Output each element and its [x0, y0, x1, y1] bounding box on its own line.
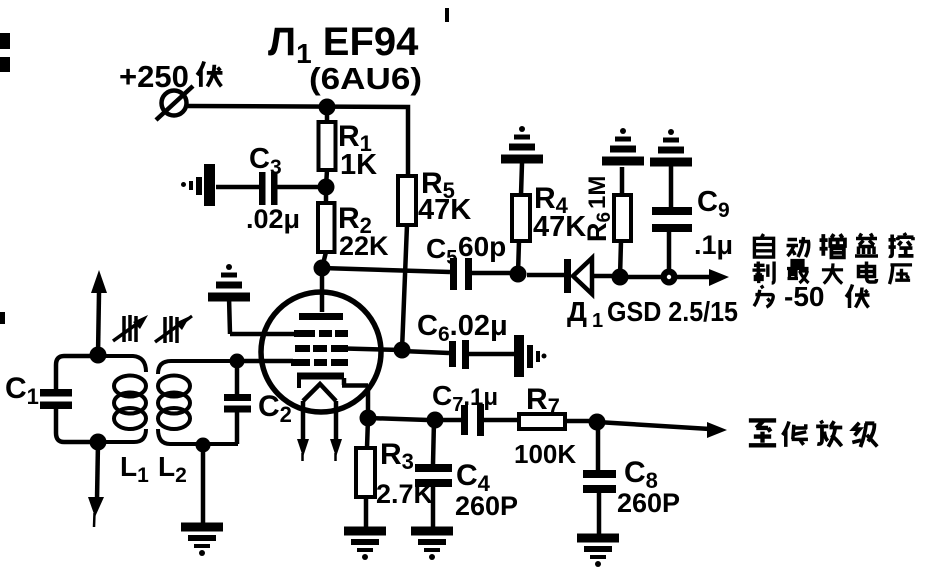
svg-text:C9: C9 — [697, 186, 730, 222]
capacitor C3 — [259, 172, 278, 205]
ground below C4 — [411, 531, 453, 560]
svg-text:R3: R3 — [380, 438, 414, 474]
node F (output ring junction) — [661, 269, 678, 286]
capacitor C8 — [583, 422, 616, 535]
svg-text:C1: C1 — [5, 372, 39, 409]
ground above R4 — [501, 126, 543, 159]
node H (grid junction) — [230, 354, 245, 369]
diode D1 — [564, 258, 592, 294]
svg-text:C7.1μ: C7.1μ — [432, 380, 498, 416]
svg-text:R7: R7 — [526, 383, 560, 419]
svg-text:GSD 2.5/15: GSD 2.5/15 — [607, 296, 738, 327]
grid g3 row — [294, 330, 348, 337]
label AGC text line1 自动增益控 — [754, 233, 913, 257]
capacitor C1 — [40, 389, 72, 409]
svg-text:1K: 1K — [340, 149, 377, 181]
svg-text:.1μ: .1μ — [694, 230, 733, 260]
wire node E to node F — [627, 275, 662, 280]
resistor R7 — [519, 414, 565, 429]
label AGC text line3 为-50伏 — [754, 281, 870, 312]
capacitor C9 — [652, 164, 692, 270]
terminal +250V — [156, 86, 193, 120]
wire AGC line to C5 — [322, 268, 450, 272]
node E (AGC junction) — [612, 269, 629, 286]
ground above R6 — [602, 128, 644, 161]
resistor R2 — [318, 187, 335, 268]
capacitor C5 — [450, 258, 472, 290]
node L2 bottom — [196, 438, 211, 453]
node D (detector junction) — [510, 266, 527, 283]
svg-text:47K: 47K — [418, 194, 471, 226]
anode plate — [299, 313, 343, 320]
wire L2 to ground — [201, 445, 206, 523]
node B (screen divider) — [318, 179, 335, 196]
cathode — [297, 376, 368, 418]
svg-text:1M: 1M — [584, 176, 611, 209]
core adjust mark L2 — [155, 316, 190, 343]
wire g3 to ground — [229, 297, 300, 334]
wire C6 to ground — [469, 352, 514, 357]
node M (output junction) — [589, 414, 606, 431]
svg-text:60p: 60p — [458, 231, 506, 262]
svg-text:C6.02μ: C6.02μ — [417, 310, 508, 346]
wire node D to diode — [527, 273, 564, 278]
wire C3 to node B — [277, 185, 326, 190]
label 伏 of +250伏 — [197, 62, 222, 87]
wire diode to node E — [592, 274, 613, 279]
node L (C4/C7) — [427, 412, 444, 429]
capacitor C6 — [449, 340, 469, 369]
ground below R3 — [344, 531, 386, 560]
wire top +250V rail — [188, 106, 408, 178]
wire C7 to R7 — [484, 418, 519, 423]
antenna up arrow — [91, 270, 107, 355]
wire output arrow — [597, 422, 727, 438]
svg-text:C2: C2 — [258, 390, 292, 427]
ground right of C6 — [514, 335, 547, 377]
label 至低放级 — [749, 420, 877, 447]
wire g2 to node G — [345, 349, 402, 351]
wire anode lead — [320, 268, 325, 312]
svg-text:-50: -50 — [784, 281, 824, 312]
node T1 tank top — [90, 347, 107, 364]
inductor L2 — [158, 361, 238, 444]
grid g1 row — [291, 359, 348, 366]
resistor R6 — [614, 167, 631, 277]
capacitor C4 — [415, 420, 452, 528]
core adjust mark L1 — [113, 315, 148, 342]
capacitor C2 — [224, 361, 251, 444]
svg-text:L2: L2 — [158, 451, 187, 487]
wire g1 row to node H — [237, 359, 293, 364]
tank down arrow — [88, 442, 104, 527]
svg-text:260P: 260P — [617, 488, 680, 518]
svg-text:C5: C5 — [426, 233, 457, 269]
svg-text:47K: 47K — [533, 211, 586, 243]
tube envelope U1 — [261, 292, 381, 412]
svg-text:1: 1 — [592, 310, 603, 332]
node C (anode junction) — [314, 260, 331, 277]
wire tank top left — [56, 356, 98, 389]
svg-text:R6: R6 — [582, 212, 615, 242]
resistor R1 — [319, 107, 336, 187]
node A (B+ junction) — [319, 99, 336, 116]
svg-text:260P: 260P — [455, 491, 518, 521]
heater filament — [303, 384, 336, 401]
wire R7 to node M — [565, 419, 590, 424]
ground below C8 — [577, 538, 619, 567]
inductor L1 — [98, 356, 146, 442]
svg-text:+250: +250 — [119, 59, 189, 94]
node G (screen junction) — [394, 342, 411, 359]
wire tank bottom left — [56, 409, 98, 442]
node K (cathode junction) — [360, 410, 377, 427]
node T2 tank bottom — [90, 434, 107, 451]
ground above C9 — [650, 129, 692, 162]
label AGC text line2 制最大电压 — [752, 261, 912, 285]
grid g2 row — [295, 345, 348, 352]
resistor R4 — [512, 163, 530, 274]
wire cathode node to C7 node — [368, 418, 428, 420]
svg-text:L1: L1 — [120, 451, 149, 487]
ground left of C3 — [181, 164, 215, 206]
svg-text:C3: C3 — [249, 143, 282, 179]
resistor R3 — [356, 418, 375, 527]
svg-text:Д: Д — [567, 296, 587, 327]
wire node G to C6 — [402, 351, 449, 353]
svg-text:100K: 100K — [514, 439, 576, 469]
heater lead arrows — [297, 401, 309, 461]
svg-text:22K: 22K — [339, 231, 389, 261]
wire ground to C3 — [216, 185, 259, 190]
svg-text:.02μ: .02μ — [246, 204, 300, 234]
svg-text:(6AU6): (6AU6) — [309, 61, 422, 96]
ground below L2 — [181, 527, 223, 556]
ground above tube (g3) — [208, 264, 250, 297]
capacitor C7 — [461, 404, 484, 436]
wire node L to C7 — [442, 418, 461, 423]
edge artifact marks — [0, 8, 449, 325]
wire C5 to node D — [472, 271, 511, 276]
resistor R5 — [398, 176, 416, 350]
wire AGC output arrow — [677, 269, 729, 286]
